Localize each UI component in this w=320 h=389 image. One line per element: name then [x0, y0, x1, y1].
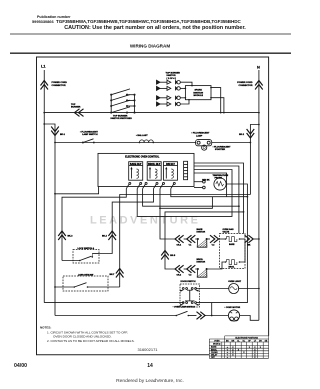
svg-text:TGF355BHWA,TGF355BHWB,TGF355BH: TGF355BHWA,TGF355BHWB,TGF355BHWC,TGF355B…	[56, 19, 241, 24]
wire door switch to oven light	[196, 288, 230, 290]
wire electrode E3 to module	[180, 97, 185, 99]
EOC pin 1	[126, 182, 131, 188]
svg-text:OFF: OFF	[211, 357, 216, 359]
svg-text:TOP: TOP	[71, 104, 76, 106]
connector plug BK-8	[188, 312, 228, 320]
svg-text:CLEAN: CLEAN	[211, 351, 218, 354]
wire EOC right pin c	[194, 173, 227, 197]
wire aux run	[160, 197, 212, 209]
wire EOC right pin a	[194, 163, 244, 234]
wire EOC pin2 crossover	[137, 170, 232, 217]
connector plug BK-3	[58, 231, 66, 240]
function table	[209, 336, 268, 358]
svg-text:( 1 OF 4 ): ( 1 OF 4 )	[167, 77, 177, 80]
svg-text:▪ BALLAST: ▪ BALLAST	[136, 134, 148, 137]
wire module output 1	[211, 88, 221, 113]
svg-text:OR-1: OR-1	[177, 245, 182, 247]
tiny labels layer	[41, 64, 260, 310]
svg-text:BAKE: BAKE	[229, 243, 235, 246]
wire lamp-circuit return to EOC	[120, 195, 251, 288]
bake row connector pair CC2	[184, 235, 196, 243]
svg-text:BR: BR	[232, 341, 235, 343]
svg-text:BURNER: BURNER	[71, 107, 81, 109]
svg-text:RED BK: RED BK	[202, 179, 210, 181]
coil broil valve coil	[225, 239, 245, 264]
wire broil ignitor to valve	[207, 262, 226, 269]
connector plug P1 on L1 (power cord)	[41, 81, 49, 90]
node N	[258, 70, 260, 320]
wire electrode E2 to module	[180, 87, 185, 89]
connector plug P2 on N (power cord)	[255, 81, 263, 90]
notes block	[40, 326, 135, 344]
svg-text:SB: SB	[265, 341, 268, 343]
svg-text:X: X	[249, 347, 251, 349]
svg-text:DL: DL	[243, 341, 246, 343]
connector plug BK-7	[116, 269, 124, 278]
svg-text:BK-4: BK-4	[102, 234, 108, 237]
svg-text:BAKE: BAKE	[211, 346, 217, 349]
svg-text:POWER CORD: POWER CORD	[52, 82, 68, 84]
connector plug BK-6 valve to N	[245, 235, 259, 243]
switch bank SB1 top burner ignitor switches	[110, 89, 135, 114]
svg-text:Y-2: Y-2	[212, 245, 215, 247]
svg-text:STARTER: STARTER	[215, 148, 226, 151]
lamp L2 oven light	[229, 284, 239, 294]
wire motor to N	[240, 316, 259, 321]
wire EOC pin4 to switch A return	[99, 189, 154, 254]
svg-text:DOOR SWITCH: DOOR SWITCH	[181, 281, 197, 283]
svg-text:▪ OVEN LAMP SWITCH: ▪ OVEN LAMP SWITCH	[173, 306, 196, 309]
svg-text:X: X	[254, 347, 256, 349]
EOC pin 2	[137, 182, 142, 188]
wire electrode E1 to module top	[180, 82, 192, 85]
EOC pin 5	[160, 182, 165, 188]
svg-text:BK-5: BK-5	[170, 255, 176, 257]
svg-text:MODULE: MODULE	[193, 95, 203, 97]
svg-text:X: X	[243, 352, 245, 354]
svg-text:X: X	[254, 357, 256, 359]
switch box A dashed (oven door lock switch)	[73, 250, 99, 264]
motor M1 convection fan	[228, 310, 239, 321]
starter FS1 fluorescent starter	[202, 145, 207, 150]
EOC pin 4	[154, 182, 159, 188]
EOC right pin header J2	[184, 161, 188, 179]
svg-text:WIRING DIAGRAM: WIRING DIAGRAM	[130, 44, 170, 49]
electrode E4 top burner ignitor	[157, 102, 181, 106]
header: publication number block	[32, 15, 246, 31]
connector plug BK-1	[51, 127, 59, 136]
svg-text:ELECTRODE POSITIONS: ELECTRODE POSITIONS	[235, 337, 258, 339]
connector plug BK-4	[108, 231, 116, 240]
EOC pin 3	[143, 182, 148, 188]
svg-text:▪ FLUORESCENT: ▪ FLUORESCENT	[80, 131, 98, 133]
wire module output 2	[211, 98, 224, 113]
sensor terminal a	[194, 180, 205, 183]
svg-text:PROBE: PROBE	[215, 178, 223, 180]
electrode E1 top burner ignitor	[157, 80, 181, 84]
title rule	[10, 52, 291, 54]
svg-text:LAMP SWITCH: LAMP SWITCH	[82, 133, 98, 136]
svg-text:04/00: 04/00	[14, 363, 27, 369]
svg-text:IGNITOR: IGNITOR	[197, 232, 206, 234]
svg-text:Y-3: Y-3	[189, 275, 192, 277]
svg-text:DSI RLY: DSI RLY	[166, 164, 175, 166]
wire electrode E4 to module bottom	[180, 100, 189, 104]
footer	[14, 363, 184, 384]
ignitor HR2 broil ignitor (hot surface)	[195, 268, 207, 277]
svg-text:LOCK SWITCH A: LOCK SWITCH A	[78, 247, 95, 250]
svg-text:DR: DR	[259, 341, 262, 343]
svg-text:X: X	[232, 347, 234, 349]
EOC pin 6	[171, 182, 176, 188]
svg-text:BROIL: BROIL	[229, 267, 236, 269]
wire door switch bottom to lamp row	[196, 303, 211, 316]
lamp FL1 fluorescent lamp	[196, 140, 212, 146]
svg-text:IGNITOR: IGNITOR	[167, 75, 176, 77]
svg-text:TOP BURNER: TOP BURNER	[166, 72, 181, 74]
wire EOC pin3 crossover	[143, 189, 239, 207]
relay K3 DSI relay	[164, 162, 178, 181]
switch box B dashed (low oven switch)	[63, 276, 108, 291]
svg-text:X: X	[260, 347, 262, 349]
table texts	[211, 337, 268, 359]
bake row connector pair CC1	[175, 235, 184, 243]
svg-text:LT: LT	[254, 341, 257, 343]
svg-text:X: X	[238, 350, 240, 352]
svg-text:BK-2: BK-2	[239, 134, 245, 136]
svg-text:316002171: 316002171	[138, 347, 159, 352]
wire EOC pin1 to lock switch	[62, 189, 126, 261]
relay K1 bake relay	[129, 162, 143, 181]
EOC U2 electronic oven control box	[98, 153, 194, 186]
svg-text:BAKE RLY: BAKE RLY	[130, 163, 142, 166]
wire EOC pin5 to bake ignitor row	[160, 189, 175, 239]
svg-text:BK-1: BK-1	[60, 134, 66, 136]
wire oven lamp switch row	[55, 315, 176, 317]
svg-text:Y-1: Y-1	[189, 245, 192, 247]
svg-text:N: N	[257, 65, 260, 70]
svg-text:14: 14	[147, 363, 153, 369]
svg-text:LAMP: LAMP	[196, 134, 203, 137]
relay K2 broil relay	[147, 162, 161, 181]
svg-text:SPARK: SPARK	[194, 89, 202, 92]
svg-text:NOTES:: NOTES:	[40, 326, 51, 330]
connector plug BK-2	[247, 129, 255, 138]
svg-text:▪ FLUORESCENT: ▪ FLUORESCENT	[213, 146, 231, 148]
svg-text:IGNITOR SWITCHES: IGNITOR SWITCHES	[111, 118, 133, 120]
svg-text:OVEN LIGHT: OVEN LIGHT	[228, 281, 241, 283]
wire oven light to N	[238, 288, 259, 290]
wire fluorescent lamp line	[55, 142, 196, 144]
switch S2 in box A	[62, 254, 99, 262]
svg-text:OF: OF	[248, 341, 251, 343]
electrode E3 top burner ignitor	[157, 96, 181, 100]
wire EOC pin6 to right bus	[171, 189, 248, 197]
diagram outer border	[37, 57, 269, 355]
node L1	[43, 70, 45, 303]
wire lamp to return	[212, 142, 251, 144]
electrode E2 top burner ignitor	[157, 86, 181, 90]
sensor RT1 temperature probe	[214, 178, 226, 190]
switch S3 in box B	[55, 283, 120, 288]
svg-text:TOP BURNER: TOP BURNER	[113, 115, 128, 117]
svg-text:OVEN: OVEN	[214, 341, 220, 343]
svg-text:BK: BK	[248, 245, 251, 247]
inductor ballast	[139, 140, 154, 143]
svg-text:OVEN DOOR CLOSED AND UNLOCKED.: OVEN DOOR CLOSED AND UNLOCKED.	[53, 335, 112, 339]
svg-text:X: X	[232, 355, 234, 357]
svg-text:BK-3: BK-3	[68, 235, 74, 237]
wire broil feed	[165, 212, 244, 269]
wire lamp return to N	[250, 125, 259, 195]
coil bake valve coil	[225, 237, 245, 242]
wire branch L1 to lamp circuit	[44, 124, 55, 316]
svg-text:CL: CL	[237, 341, 240, 343]
svg-text:5995330866: 5995330866	[32, 19, 54, 24]
svg-text:▪ CONV MOTOR: ▪ CONV MOTOR	[225, 307, 241, 309]
wire main top line L1 to N	[44, 112, 259, 114]
svg-text:BK: BK	[226, 341, 229, 343]
svg-text:CONNECTOR: CONNECTOR	[238, 85, 252, 87]
wire sensor return bus	[212, 184, 248, 303]
svg-text:IGNITOR: IGNITOR	[197, 262, 206, 264]
svg-text:LOW OVEN SW: LOW OVEN SW	[78, 275, 93, 277]
switch S4 oven lamp switch	[176, 311, 190, 316]
gas valve GV1 dashed box	[220, 234, 246, 269]
svg-text:L1: L1	[41, 64, 46, 69]
svg-text:OR-2: OR-2	[177, 275, 182, 277]
ignitor HR1 bake ignitor (hot surface)	[195, 238, 207, 247]
connector plug BK-5	[161, 251, 169, 260]
svg-text:POWER CORD: POWER CORD	[237, 82, 253, 84]
svg-text:BROIL RLY: BROIL RLY	[148, 164, 161, 166]
svg-text:MODE ▷: MODE ▷	[213, 343, 221, 346]
door switch DS1 dashed box	[180, 284, 200, 307]
svg-text:CONNECTOR: CONNECTOR	[52, 85, 66, 87]
header rule	[10, 33, 291, 35]
switch S1 fluorescent lamp switch	[82, 139, 95, 144]
connector J1 on main line	[75, 109, 84, 117]
svg-text:▪ FLUORESCENT: ▪ FLUORESCENT	[192, 133, 210, 135]
bake row connector pair CC3	[207, 235, 225, 243]
wire EOC left supply	[55, 187, 99, 194]
svg-text:BK-7: BK-7	[109, 274, 115, 276]
spark module U1	[185, 85, 212, 101]
svg-text:VALVE: VALVE	[223, 231, 230, 234]
svg-text:IGNITION: IGNITION	[193, 92, 203, 94]
broil row connector pair CC5	[184, 265, 196, 273]
broil row connector pair CC4	[175, 265, 184, 273]
svg-text:Rendered by LeadVenture, Inc.: Rendered by LeadVenture, Inc.	[116, 378, 184, 384]
svg-text:2. CONTACTS AS TO BE DO NOT A: 2. CONTACTS AS TO BE DO NOT APPEAR ON AL…	[47, 339, 135, 343]
wire EOC right pin b	[194, 166, 239, 234]
sensor terminal b	[194, 186, 205, 189]
svg-text:ELECTRONIC OVEN CONTROL: ELECTRONIC OVEN CONTROL	[125, 157, 160, 159]
wire L1 bottom run to door switch	[44, 302, 183, 304]
svg-text:CAUTION: Use the part number: CAUTION: Use the part number on all orde…	[64, 25, 246, 31]
door switch contacts	[180, 288, 198, 306]
